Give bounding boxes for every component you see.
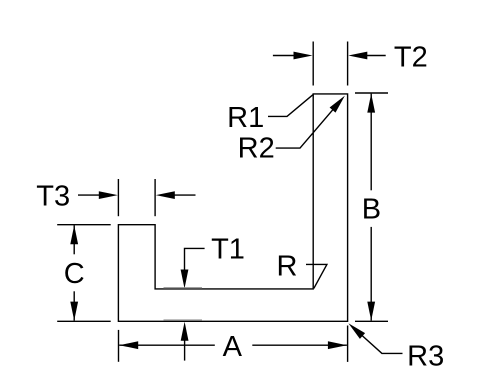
dimension T2 extension line left — [312, 42, 314, 86]
svg-text:T1: T1 — [211, 234, 245, 266]
dimension T1 leader from label — [185, 248, 205, 272]
svg-text:A: A — [223, 331, 243, 363]
svg-text:R: R — [277, 250, 298, 282]
svg-text:R2: R2 — [238, 133, 275, 165]
svg-text:B: B — [362, 193, 381, 225]
arrowhead A left (points left) — [119, 341, 138, 349]
leader R2 shaft — [276, 107, 335, 148]
dimension C dim line lower segment — [73, 291, 75, 320]
svg-text:C: C — [64, 258, 85, 290]
arrowhead T1 lower (points up) — [181, 322, 189, 341]
dimension C dim line upper segment — [73, 225, 75, 254]
dimension A extension line left — [118, 330, 120, 362]
arrowhead T2 left (points right) — [294, 52, 313, 60]
leader R1 — [268, 94, 313, 116]
arrowhead T3 left (points right) — [99, 191, 118, 199]
dimension T3 left dim line — [78, 194, 102, 196]
dimension B dim line lower segment — [370, 227, 372, 321]
dimension T2 extension line right — [347, 42, 349, 86]
dimension C extension line top — [57, 224, 110, 226]
arrowhead B top (points up) — [367, 94, 375, 113]
arrowhead T3 right (points left) — [156, 191, 175, 199]
arrowhead R2 (points up-right at corner) — [330, 96, 345, 113]
T1 extension tick upper (gray) — [164, 287, 203, 289]
leader R radius flag — [306, 264, 327, 288]
arrowhead A right (points right) — [328, 341, 347, 349]
arrowhead T1 upper (points down) — [181, 270, 189, 289]
svg-text:T2: T2 — [394, 42, 428, 74]
arrowhead T2 right (points left) — [348, 52, 367, 60]
profile outline — [118, 94, 347, 321]
dimension A extension line right — [347, 326, 349, 362]
dimension T3 extension line left — [117, 179, 119, 216]
dimension T3 extension line right — [154, 179, 156, 216]
svg-text:R1: R1 — [227, 102, 264, 134]
arrowhead R3 (points up-left at corner) — [348, 323, 365, 339]
arrowhead B bottom (points down) — [367, 302, 375, 321]
arrowhead C bottom (points down) — [70, 302, 78, 321]
dimension B dim line upper segment — [370, 94, 372, 191]
dimension A dim line left segment — [119, 344, 215, 346]
leader R3 shaft — [358, 332, 403, 354]
arrowhead C top (points up) — [70, 225, 78, 244]
dimension B extension line top — [355, 92, 388, 94]
dimension T2 right dim line — [364, 55, 386, 57]
dimension C extension line bottom — [57, 320, 110, 322]
dimension B extension line bottom — [355, 320, 388, 322]
dimension T1 lower arrow tail — [184, 338, 186, 361]
T1 extension tick lower (gray) — [164, 319, 203, 321]
svg-text:R3: R3 — [407, 341, 444, 373]
dimension A dim line right segment — [252, 344, 347, 346]
dimension T3 right dim line — [172, 194, 196, 196]
dimension T2 left dim line — [273, 55, 297, 57]
svg-text:T3: T3 — [36, 180, 70, 212]
